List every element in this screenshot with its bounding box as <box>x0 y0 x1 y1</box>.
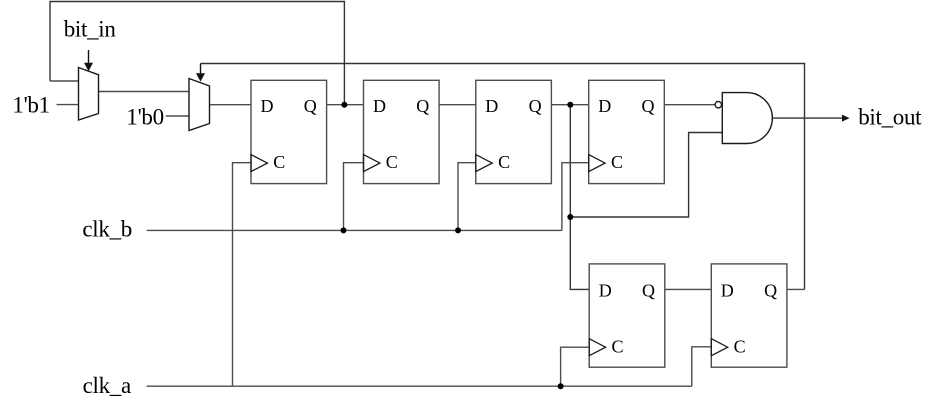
svg-text:1'b1: 1'b1 <box>12 93 49 118</box>
svg-text:clk_a: clk_a <box>83 373 131 398</box>
svg-text:C: C <box>386 152 398 172</box>
svg-text:Q: Q <box>416 96 429 116</box>
svg-text:D: D <box>721 281 734 301</box>
svg-text:D: D <box>485 96 498 116</box>
svg-text:C: C <box>611 152 623 172</box>
svg-text:bit_out: bit_out <box>858 105 922 130</box>
svg-text:C: C <box>498 152 510 172</box>
svg-text:C: C <box>612 336 624 356</box>
svg-text:C: C <box>273 152 285 172</box>
svg-text:D: D <box>598 96 611 116</box>
svg-text:1'b0: 1'b0 <box>126 104 163 129</box>
svg-text:Q: Q <box>642 96 655 116</box>
svg-text:Q: Q <box>764 281 777 301</box>
svg-text:clk_b: clk_b <box>82 217 132 242</box>
svg-text:Q: Q <box>304 96 317 116</box>
svg-text:D: D <box>261 96 274 116</box>
svg-text:D: D <box>599 281 612 301</box>
svg-text:bit_in: bit_in <box>64 16 117 41</box>
svg-text:Q: Q <box>529 96 542 116</box>
svg-text:C: C <box>734 336 746 356</box>
svg-text:Q: Q <box>642 281 655 301</box>
svg-text:D: D <box>373 96 386 116</box>
